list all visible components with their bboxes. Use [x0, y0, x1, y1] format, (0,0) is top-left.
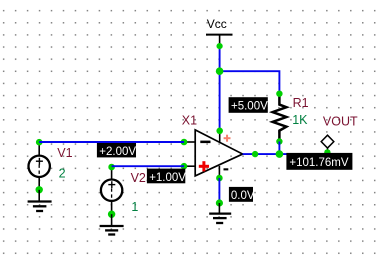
svg-text:X1: X1: [182, 114, 197, 128]
svg-text:2: 2: [59, 166, 66, 180]
svg-text:V1: V1: [57, 146, 72, 160]
minus marker supply: [224, 168, 229, 170]
node positive supply terminal: [216, 128, 223, 135]
voltage source V1: [29, 142, 50, 190]
node V2 top terminal: [108, 164, 115, 171]
ground (op-amp): [209, 203, 231, 223]
wire V1 to inverting input: [39, 141, 184, 143]
pin negative supply: [218, 166, 220, 178]
svg-text:0.0V: 0.0V: [231, 190, 255, 202]
svg-text:1K: 1K: [292, 113, 308, 127]
node R1 bottom terminal: [276, 138, 282, 144]
svg-text:1: 1: [131, 200, 138, 214]
svg-text:+101.76mV: +101.76mV: [289, 157, 348, 169]
svg-text:+2.00V: +2.00V: [99, 146, 136, 158]
svg-text:+5.00V: +5.00V: [231, 101, 268, 113]
wire negative supply to ground: [218, 178, 220, 203]
voltage label +1.00V: [147, 169, 186, 184]
minus marker inverting input: [200, 141, 210, 144]
svg-text:V2: V2: [131, 171, 146, 185]
plus marker supply (light red): [224, 135, 231, 142]
voltage label +5.00V: [229, 97, 268, 113]
pin inverting input: [184, 141, 195, 143]
voltage label +101.76mV: [286, 153, 352, 170]
node output terminal: [252, 151, 258, 157]
Vcc supply symbol: [206, 17, 233, 46]
node V1 bottom terminal: [36, 186, 43, 193]
node junction Vcc/R1: [216, 67, 224, 75]
svg-text:R1: R1: [293, 96, 309, 110]
node ground terminal: [216, 199, 223, 206]
wire R1 bottom to output net: [278, 142, 280, 155]
voltage label +2.00V: [97, 143, 136, 158]
svg-text:Vcc: Vcc: [207, 17, 227, 31]
node junction output/R1: [276, 150, 284, 158]
VOUT pin diamond: [321, 135, 334, 152]
node R1 top terminal: [276, 91, 282, 97]
op-amp U1 (X1) triangle: [195, 130, 242, 176]
svg-text:+1.00V: +1.00V: [149, 172, 186, 184]
node non-inverting input terminal: [181, 163, 188, 170]
svg-text:VOUT: VOUT: [323, 114, 358, 128]
node negative supply terminal: [216, 175, 223, 182]
pin positive supply: [219, 131, 221, 142]
voltage source V2: [101, 167, 122, 214]
plus marker non-inverting input: [199, 161, 209, 171]
pin non-inverting input: [184, 165, 195, 167]
node Vcc terminal: [217, 43, 223, 49]
ground (V1): [28, 190, 52, 211]
wire branch to R1 top: [220, 71, 280, 94]
wire op-amp output to VOUT: [243, 153, 328, 155]
voltage label 0.0V: [229, 187, 255, 202]
node V2 bottom terminal: [108, 211, 115, 218]
node V1 top terminal: [36, 139, 43, 146]
node inverting input terminal: [181, 139, 188, 146]
node VOUT terminal: [324, 149, 330, 155]
resistor R1: [273, 94, 287, 142]
wire V2 to non-inverting input: [112, 165, 184, 167]
ground (V2): [100, 214, 124, 234]
wire Vcc to op-amp positive supply pin: [219, 46, 221, 131]
